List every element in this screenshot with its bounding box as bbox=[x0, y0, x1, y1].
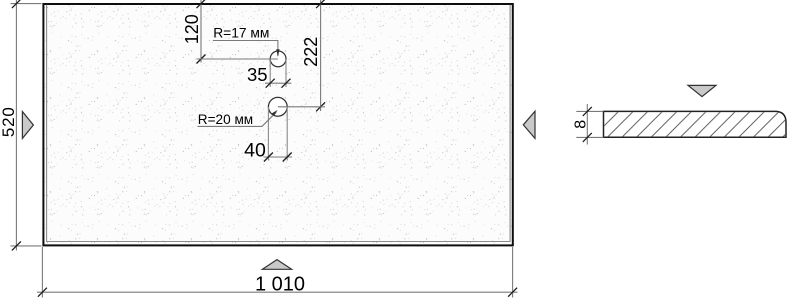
dim 8: bottom tick bbox=[583, 133, 592, 142]
section view slab bbox=[604, 111, 787, 137]
edge marker triangle right (points left) bbox=[523, 111, 535, 138]
dim 222: top tick bbox=[316, 0, 325, 8]
dim 1010: right extension line bbox=[512, 247, 514, 298]
svg-text:8: 8 bbox=[572, 120, 589, 129]
dim 520: bottom tick bbox=[12, 241, 21, 250]
hole 2 right tangent extension bbox=[286, 107, 288, 161]
dim 8: top extension line bbox=[576, 110, 603, 112]
hole 1 (R17) circle bbox=[270, 51, 286, 67]
hole 2 (R20) circle bbox=[268, 97, 287, 116]
dim 1010: left extension line bbox=[41, 247, 43, 298]
dim 35: left tick bbox=[266, 79, 275, 88]
dim 222: connector from hole 2 center bbox=[278, 106, 325, 108]
inner edge-profile line (left/bottom/right) bbox=[47, 5, 511, 242]
dim 35: dimension line bbox=[265, 82, 291, 84]
dim 35: right tick bbox=[282, 79, 291, 88]
label R=20: arrowhead bbox=[271, 110, 277, 116]
dim 120: bottom tick bbox=[197, 55, 206, 64]
dim 520: bottom extension line bbox=[11, 245, 42, 247]
dim 120: dimension line bbox=[200, 0, 202, 63]
hole 1 right tangent extension bbox=[285, 60, 287, 88]
label R=17: shelf line bbox=[213, 41, 278, 56]
dim 8: top tick bbox=[583, 107, 592, 116]
section edge marker triangle (points down) bbox=[688, 85, 716, 96]
dim 1010: left tick bbox=[38, 288, 47, 297]
dim 520: top extension line bbox=[11, 3, 42, 5]
dim 520: top tick bbox=[12, 0, 21, 8]
svg-text:120: 120 bbox=[182, 14, 202, 44]
dim 222: dimension line bbox=[320, 0, 322, 111]
hole 2 left tangent extension bbox=[267, 107, 269, 161]
svg-text:222: 222 bbox=[301, 37, 321, 67]
svg-text:R=20 мм: R=20 мм bbox=[198, 112, 253, 127]
section slab hatching bbox=[604, 112, 785, 137]
dim 120: top tick bbox=[197, 0, 206, 8]
dim 40: left tick bbox=[264, 153, 273, 162]
svg-text:35: 35 bbox=[247, 64, 268, 85]
svg-text:520: 520 bbox=[0, 106, 18, 137]
label R=20: shelf line bbox=[197, 112, 276, 126]
dim 520: dimension line bbox=[15, 0, 17, 251]
svg-text:1 010: 1 010 bbox=[255, 274, 305, 296]
dim 120: connector to hole 1 center bbox=[197, 58, 278, 60]
hole 1 left tangent extension bbox=[269, 60, 271, 88]
dim 1010: right tick bbox=[508, 288, 517, 297]
dim 1010: dimension line bbox=[37, 291, 518, 293]
dim 222: bottom tick bbox=[316, 102, 325, 111]
dim 40: dimension line bbox=[264, 156, 293, 158]
dim 8: dimension line bbox=[586, 104, 588, 145]
plan view countertop panel outline bbox=[43, 4, 512, 245]
label R=17: arrowhead bbox=[276, 49, 279, 57]
edge marker triangle bottom (points up) bbox=[262, 260, 291, 270]
svg-text:40: 40 bbox=[244, 140, 266, 162]
dim 8: bottom extension line bbox=[576, 136, 603, 138]
svg-text:R=17 мм: R=17 мм bbox=[213, 25, 269, 40]
edge marker triangle left (points right) bbox=[22, 112, 33, 139]
dim 40: right tick bbox=[283, 153, 292, 162]
